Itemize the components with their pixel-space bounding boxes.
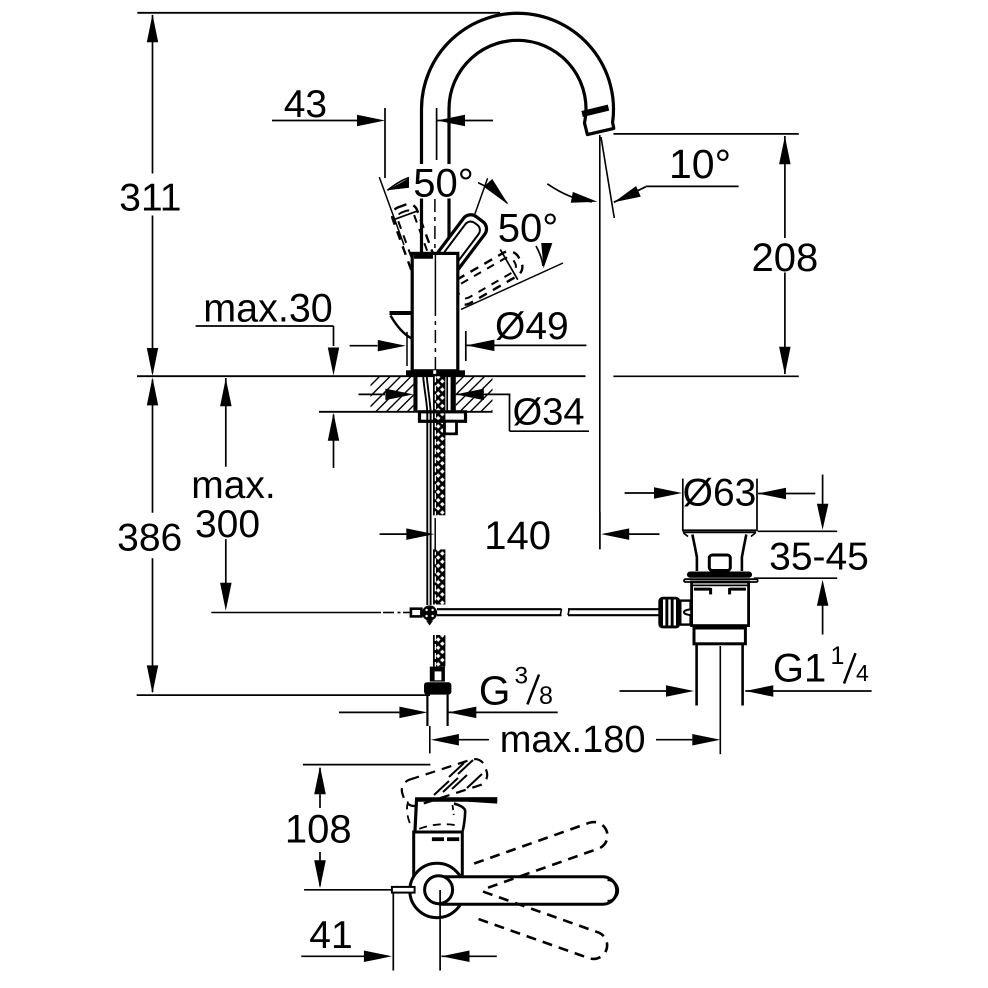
svg-text:35-45: 35-45 bbox=[769, 536, 869, 579]
svg-text:10°: 10° bbox=[669, 141, 731, 187]
svg-text:4: 4 bbox=[856, 660, 869, 686]
svg-text:max.: max. bbox=[191, 464, 276, 507]
svg-text:max.30: max.30 bbox=[203, 286, 333, 330]
svg-text:50°: 50° bbox=[413, 162, 474, 206]
svg-text:50°: 50° bbox=[498, 207, 559, 251]
svg-text:108: 108 bbox=[285, 807, 352, 851]
svg-text:311: 311 bbox=[119, 176, 181, 219]
svg-text:41: 41 bbox=[309, 914, 352, 957]
svg-text:8: 8 bbox=[539, 682, 553, 710]
svg-text:max.180: max.180 bbox=[500, 719, 646, 761]
svg-text:1: 1 bbox=[831, 642, 845, 670]
svg-text:Ø63: Ø63 bbox=[683, 472, 757, 515]
svg-text:G1: G1 bbox=[773, 647, 826, 691]
svg-text:43: 43 bbox=[284, 83, 327, 126]
svg-text:Ø34: Ø34 bbox=[513, 392, 585, 434]
svg-text:300: 300 bbox=[195, 503, 260, 546]
svg-text:3: 3 bbox=[515, 663, 529, 690]
svg-text:386: 386 bbox=[117, 517, 182, 560]
svg-text:140: 140 bbox=[484, 514, 551, 558]
svg-text:208: 208 bbox=[752, 236, 819, 280]
svg-text:G: G bbox=[479, 667, 511, 713]
svg-text:Ø49: Ø49 bbox=[495, 305, 569, 348]
